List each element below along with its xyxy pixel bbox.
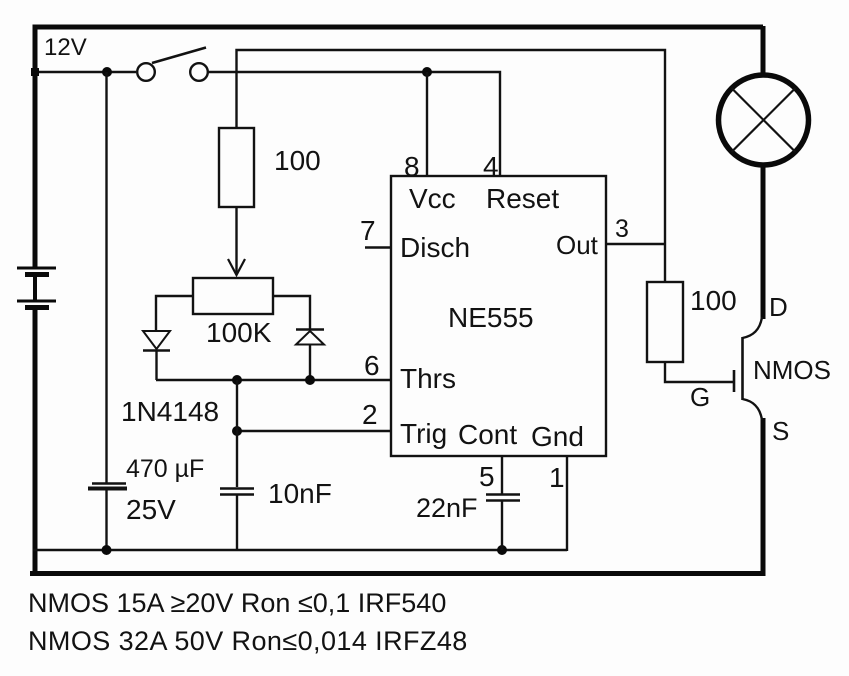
wire left border bottom (battery minus) xyxy=(33,309,38,576)
svg-text:100: 100 xyxy=(274,145,321,176)
diode D2 1N4148 (up) xyxy=(296,330,324,381)
label pin 6 xyxy=(364,350,380,381)
capacitor C1 10nF xyxy=(220,489,254,551)
wire source to bottom border xyxy=(33,418,764,574)
label Gnd xyxy=(531,421,584,452)
wire ground rail xyxy=(33,549,567,551)
wire pot left to diode D1 xyxy=(156,296,193,331)
label pin 2 xyxy=(362,399,378,430)
node junction C3 ground xyxy=(497,545,507,555)
label D xyxy=(769,292,788,322)
svg-text:Disch: Disch xyxy=(400,232,470,263)
svg-text:Trig: Trig xyxy=(400,418,447,449)
wire 12V branch down to C 470uF xyxy=(105,72,107,483)
label NMOS xyxy=(753,355,831,385)
potentiometer P1 100K xyxy=(193,278,273,314)
label 470 uF xyxy=(126,455,204,483)
wire 12V rail to switch xyxy=(33,71,136,73)
wire pin 1 Gnd xyxy=(566,456,568,551)
svg-text:100: 100 xyxy=(690,285,737,316)
svg-text:Vcc: Vcc xyxy=(409,183,456,214)
label 100 R1 xyxy=(274,145,321,176)
wire top border (12V rail) xyxy=(35,27,763,267)
svg-text:2: 2 xyxy=(362,399,378,430)
svg-text:G: G xyxy=(690,382,710,412)
pin 7 stub xyxy=(365,246,391,248)
node junction Thrs/Trig branch xyxy=(232,375,242,385)
svg-text:25V: 25V xyxy=(126,494,176,525)
capacitor C3 22nF xyxy=(486,495,520,551)
svg-text:4: 4 xyxy=(483,151,499,182)
lamp L1 xyxy=(719,75,809,165)
note line 2 xyxy=(28,626,468,656)
op-amp U1 NE555 box xyxy=(391,176,606,456)
svg-text:D: D xyxy=(769,292,788,322)
label Cont xyxy=(458,419,517,450)
label G xyxy=(690,382,710,412)
wire wiper arrow xyxy=(228,207,245,275)
label S xyxy=(772,416,789,446)
label 25V xyxy=(126,494,176,525)
transistor Q1 NMOS xyxy=(734,317,762,420)
svg-text:NMOS 15A ≥20V Ron ≤0,1 IRF540: NMOS 15A ≥20V Ron ≤0,1 IRF540 xyxy=(28,588,446,618)
svg-text:6: 6 xyxy=(364,350,380,381)
wire Trig to C 10nF xyxy=(236,380,238,487)
wire pin 3 Out xyxy=(606,243,665,245)
svg-text:470 µF: 470 µF xyxy=(126,455,204,483)
svg-text:Reset: Reset xyxy=(486,183,559,214)
diode D1 1N4148 (down) xyxy=(143,331,170,380)
wire pin 8 (Vcc) xyxy=(426,72,428,176)
svg-text:1N4148: 1N4148 xyxy=(121,396,219,427)
svg-text:1: 1 xyxy=(549,462,565,493)
label Disch xyxy=(400,232,470,263)
label pin 3 xyxy=(615,215,629,243)
node junction Trig xyxy=(232,426,242,436)
node junction 12V/cap branch xyxy=(102,67,112,77)
resistor R2 100 (gate) xyxy=(647,282,683,362)
svg-text:Gnd: Gnd xyxy=(531,421,584,452)
svg-text:7: 7 xyxy=(360,215,376,246)
svg-text:Thrs: Thrs xyxy=(400,363,456,394)
label 100K xyxy=(206,317,272,348)
svg-text:Cont: Cont xyxy=(458,419,517,450)
svg-text:S: S xyxy=(772,416,789,446)
svg-text:5: 5 xyxy=(479,461,495,492)
wire pin 5 to C 22nF xyxy=(501,456,503,494)
node junction at left border xyxy=(31,68,39,76)
svg-text:NE555: NE555 xyxy=(448,302,534,333)
label Reset xyxy=(486,183,559,214)
node junction pin8 feed xyxy=(422,67,432,77)
resistor R1 100 (charge) xyxy=(219,128,254,207)
label 10nF xyxy=(268,478,332,509)
label 1N4148 xyxy=(121,396,219,427)
label Out xyxy=(556,230,599,260)
svg-text:8: 8 xyxy=(404,151,420,182)
wire drain (lamp to NMOS) xyxy=(761,165,766,319)
svg-text:3: 3 xyxy=(615,215,629,243)
label Thrs xyxy=(400,363,456,394)
svg-text:22nF: 22nF xyxy=(416,493,478,523)
svg-text:10nF: 10nF xyxy=(268,478,332,509)
wire pot right to diode D2 xyxy=(273,296,310,329)
svg-text:Out: Out xyxy=(556,230,599,260)
wire right border top (lamp feed) xyxy=(761,26,766,77)
label 22nF xyxy=(416,493,478,523)
note line 1 xyxy=(28,588,446,618)
label NE555 xyxy=(448,302,534,333)
label 12V xyxy=(44,34,87,61)
wire Trig net (pin 2) xyxy=(237,430,391,432)
svg-text:NMOS: NMOS xyxy=(753,355,831,385)
node junction C2 ground xyxy=(102,545,112,555)
svg-text:12V: 12V xyxy=(44,34,87,61)
label 100 R2 xyxy=(690,285,737,316)
node junction diode D2 xyxy=(305,375,315,385)
label pin 4 xyxy=(483,151,499,182)
wire switch to Vcc/Reset xyxy=(208,72,500,176)
capacitor C2 470uF 25V xyxy=(88,484,127,551)
svg-text:100K: 100K xyxy=(206,317,272,348)
label pin 5 xyxy=(479,461,495,492)
wire gate xyxy=(665,362,733,382)
battery B1 xyxy=(17,268,56,308)
label pin 8 xyxy=(404,151,420,182)
label pin 1 xyxy=(549,462,565,493)
wire Out to charge resistor (top run) xyxy=(237,50,666,282)
svg-text:NMOS 32A 50V Ron≤0,014 IRFZ48: NMOS 32A 50V Ron≤0,014 IRFZ48 xyxy=(28,626,468,656)
label Vcc xyxy=(409,183,456,214)
label Trig xyxy=(400,418,447,449)
switch S1 xyxy=(137,48,208,81)
wire Thrs net (pin 6) xyxy=(156,379,391,381)
label pin 7 xyxy=(360,215,376,246)
